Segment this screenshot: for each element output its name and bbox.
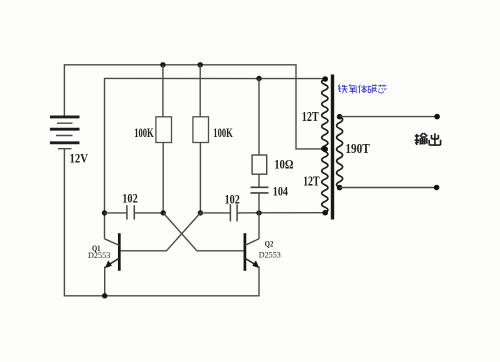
- svg-text:12V: 12V: [70, 151, 89, 166]
- transistor Q1 base bar: [118, 233, 121, 271]
- node snubber bottom junction: [256, 210, 261, 215]
- transformer T1 primary winding 12T + 12T: [322, 79, 328, 213]
- svg-text:D2553: D2553: [259, 250, 281, 259]
- battery B1 12V: [50, 117, 80, 149]
- svg-text:100K: 100K: [134, 126, 154, 140]
- node Q1 collector / C1 junction: [102, 210, 107, 215]
- wire output top: [340, 116, 438, 118]
- transistor Q1 collector diagonal: [105, 239, 120, 246]
- resistor R1 100K lead bottom: [162, 143, 164, 213]
- node bottom rail Q1 emitter: [102, 293, 107, 298]
- svg-text:12T: 12T: [302, 110, 319, 125]
- wire Q1 emitter to bottom rail: [104, 267, 106, 296]
- node top rail R2 junction: [198, 62, 203, 67]
- svg-text:10Ω: 10Ω: [274, 157, 293, 171]
- svg-text:100K: 100K: [213, 126, 233, 140]
- transformer T1 secondary winding 190T: [337, 117, 343, 188]
- wire C1 left lead: [105, 212, 127, 214]
- svg-text:D2553: D2553: [88, 251, 110, 260]
- resistor R3 10ohm lead top: [258, 79, 260, 156]
- wire C3 bottom lead: [258, 193, 260, 213]
- resistor R2 100K lead bottom: [199, 143, 201, 213]
- wire Q2 emitter to bottom rail corner: [258, 267, 260, 297]
- wire output bottom: [340, 187, 437, 189]
- node B base-coupling right: [198, 210, 203, 215]
- transistor Q1 emitter with arrow: [105, 258, 120, 268]
- node secondary top terminal: [337, 114, 343, 120]
- svg-text:190T: 190T: [345, 142, 370, 157]
- transistor Q2 emitter with arrow: [245, 258, 260, 268]
- svg-text:102: 102: [225, 192, 240, 206]
- node top rail R1 junction: [160, 62, 165, 67]
- wire Q2 base to node A diagonal: [163, 213, 244, 251]
- label output: [415, 133, 441, 145]
- svg-text:102: 102: [122, 192, 137, 206]
- wire Q1 base to node B diagonal: [120, 213, 200, 251]
- node secondary bottom terminal: [337, 185, 343, 191]
- resistor R2 100K lead top: [199, 65, 201, 117]
- wire battery minus down to bottom rail: [64, 149, 259, 296]
- transistor Q2 base bar: [244, 233, 247, 271]
- capacitor C3 104: [251, 187, 269, 193]
- svg-text:12T: 12T: [303, 174, 320, 189]
- node primary center tap: [322, 146, 328, 152]
- node second rail snubber junction: [256, 76, 261, 81]
- svg-text:Q2: Q2: [265, 239, 274, 249]
- node output top terminal: [434, 114, 440, 120]
- node A base-coupling left: [161, 210, 166, 215]
- capacitor C2 102: [230, 204, 237, 221]
- node output bottom terminal: [434, 185, 440, 191]
- svg-text:104: 104: [273, 184, 289, 198]
- wire R3 to C3: [258, 174, 260, 187]
- node primary bottom terminal: [322, 210, 328, 216]
- resistor R1 100K lead top: [162, 65, 164, 117]
- wire C2 right lead to primary bottom: [237, 212, 325, 214]
- node primary top terminal: [322, 76, 328, 82]
- resistor R1 100K body: [156, 117, 172, 143]
- transformer T1 core bar: [331, 75, 334, 220]
- capacitor C1 102: [127, 205, 134, 219]
- resistor R2 100K body: [193, 117, 209, 143]
- wire C2 left lead: [200, 212, 230, 214]
- wire C1 right lead: [134, 212, 163, 214]
- label ferrite core (blue): [338, 84, 386, 93]
- wire second rail Q1 collector to primary top: [105, 78, 326, 238]
- wire top rail from battery plus to center-tap branch: [64, 65, 325, 149]
- resistor R3 10ohm body: [252, 155, 267, 174]
- transistor Q2 collector diagonal: [245, 213, 259, 246]
